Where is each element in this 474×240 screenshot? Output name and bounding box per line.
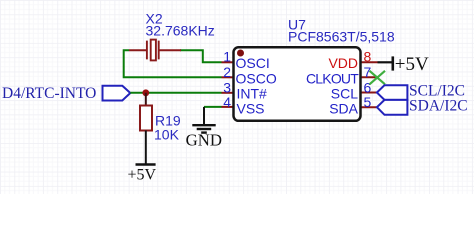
- svg-text:PCF8563T/5,518: PCF8563T/5,518: [288, 29, 395, 45]
- wire crystal right lead to pin1 net: [180, 50, 222, 62]
- svg-text:SDA: SDA: [329, 101, 358, 117]
- svg-text:3: 3: [223, 79, 231, 95]
- svg-text:+5V: +5V: [395, 54, 429, 75]
- svg-text:D4/RTC-INTO: D4/RTC-INTO: [2, 85, 96, 102]
- pin 3 stub: [222, 92, 234, 94]
- svg-text:INT#: INT#: [237, 86, 268, 102]
- svg-text:5: 5: [364, 94, 372, 110]
- pin 1 stub: [222, 61, 234, 63]
- resistor R19: [140, 106, 152, 131]
- port SDA/I2C: [377, 97, 468, 114]
- pin 7 stub: [361, 76, 378, 78]
- no-connect X on pin 7: [370, 71, 386, 85]
- pin 6 stub: [361, 92, 378, 94]
- svg-text:2: 2: [223, 64, 231, 80]
- svg-text:8: 8: [364, 49, 372, 65]
- pin 5 stub: [361, 106, 378, 108]
- svg-text:OSCO: OSCO: [236, 71, 277, 87]
- wire crystal left lead to pin2 net: [124, 50, 222, 77]
- svg-text:OSCI: OSCI: [236, 55, 270, 71]
- port D4/RTC-INT0: [2, 85, 130, 102]
- port SCL/I2C: [377, 83, 465, 100]
- pin1 marker dot: [237, 50, 244, 57]
- svg-text:CLKOUT: CLKOUT: [306, 71, 359, 87]
- op-amp U7 body: [234, 47, 361, 121]
- junction node: [142, 89, 149, 96]
- power +5V right: [378, 54, 430, 75]
- svg-text:6: 6: [364, 79, 372, 95]
- pin 2 stub: [222, 76, 234, 78]
- svg-text:SCL: SCL: [331, 86, 358, 102]
- svg-text:GND: GND: [186, 130, 222, 149]
- pin 4 stub: [222, 106, 234, 108]
- ground GND: [186, 107, 222, 149]
- wire port to pin3 net: [130, 92, 221, 94]
- wire junction to resistor: [145, 93, 147, 106]
- svg-text:4: 4: [223, 94, 231, 110]
- svg-text:+5V: +5V: [128, 167, 157, 184]
- pin 8 stub: [361, 61, 378, 63]
- svg-text:32.768KHz: 32.768KHz: [146, 23, 215, 39]
- wire pin4 to ground: [204, 106, 222, 108]
- svg-text:10K: 10K: [154, 127, 180, 143]
- crystal X2: [129, 40, 181, 61]
- power +5V bottom: [128, 131, 157, 184]
- svg-text:VDD: VDD: [328, 55, 358, 71]
- svg-text:VSS: VSS: [237, 101, 265, 117]
- svg-text:1: 1: [223, 49, 231, 65]
- svg-text:SDA/I2C: SDA/I2C: [409, 97, 468, 114]
